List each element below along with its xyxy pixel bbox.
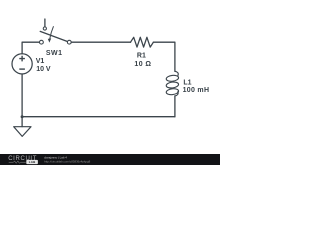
svg-text:100 mH: 100 mH xyxy=(183,87,210,94)
wire: inductor bottom to bottom-right corner xyxy=(174,96,176,117)
svg-text:10 V: 10 V xyxy=(36,66,51,73)
node: junction of V1 / ground / bottom rail xyxy=(21,115,24,118)
wire: left horizontal from switch to left rail, down to V1 top xyxy=(22,42,39,54)
switch top terminal xyxy=(43,27,46,30)
resistor R1 xyxy=(131,37,154,47)
svg-text:10 Ω: 10 Ω xyxy=(134,61,151,68)
switch right terminal xyxy=(67,40,71,44)
watermark bar xyxy=(0,154,220,165)
svg-text:V1: V1 xyxy=(36,58,45,65)
svg-text:L1: L1 xyxy=(183,79,191,86)
wire: resistor to top-right corner, down to inductor xyxy=(153,42,175,71)
svg-text:http://circuitlab.com/c85836z4: http://circuitlab.com/c85836z4pkpg8 xyxy=(44,159,91,163)
wire: bottom rail xyxy=(22,116,175,118)
switch left terminal xyxy=(40,40,44,44)
wire: switch top stub xyxy=(44,19,46,27)
switch actuation arrow xyxy=(50,27,54,39)
logo squiggle xyxy=(9,161,26,163)
switch lever xyxy=(40,31,67,41)
inductor L1 coil xyxy=(166,71,179,96)
ground xyxy=(14,127,31,137)
labels xyxy=(36,50,210,94)
svg-text:LAB: LAB xyxy=(29,160,36,164)
svg-text:R1: R1 xyxy=(137,52,146,59)
logo LAB box xyxy=(26,160,38,164)
svg-text:SW1: SW1 xyxy=(46,50,63,57)
voltage source V1 xyxy=(12,54,32,74)
switch SW1 xyxy=(40,27,72,44)
wire: right of switch to resistor xyxy=(71,41,130,43)
ground stub xyxy=(21,117,23,127)
wire: V1 bottom down to bottom node xyxy=(21,74,23,117)
